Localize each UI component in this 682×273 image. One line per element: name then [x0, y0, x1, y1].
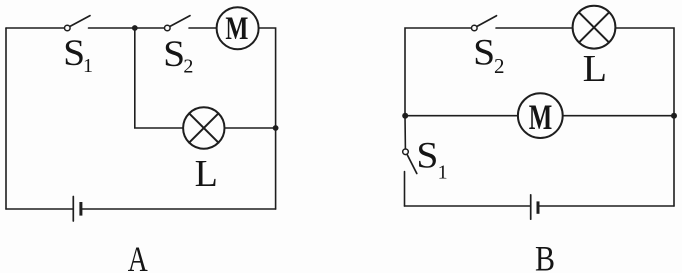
switch S1: [65, 16, 91, 31]
wire lamp to right corner: [616, 28, 674, 206]
battery (circuit B): [531, 195, 538, 219]
svg-text:1: 1: [438, 161, 448, 183]
wire A left vertical: [5, 28, 7, 209]
wire lamp to right wire: [226, 127, 273, 129]
wire S1 fixed contact down: [404, 172, 406, 207]
svg-text:S: S: [416, 135, 438, 176]
wire motor to right corner: [259, 28, 275, 209]
svg-text:B: B: [535, 239, 555, 273]
svg-text:S: S: [63, 33, 85, 74]
svg-text:S: S: [473, 32, 495, 73]
node junction B-right: [671, 113, 677, 119]
svg-text:M: M: [529, 97, 553, 137]
lamp L (circuit B): [573, 6, 616, 49]
label S2 (circuit A): [163, 34, 193, 78]
wire A bottom-left segment: [6, 208, 72, 210]
label S2 (circuit B): [473, 32, 504, 78]
wire B top-left segment: [405, 28, 471, 116]
svg-text:S: S: [163, 34, 185, 75]
motor M (circuit A): [217, 7, 259, 49]
node junction A-top: [132, 25, 138, 31]
wire B bottom-right segment: [539, 205, 674, 207]
wire node to motor: [405, 115, 517, 117]
svg-text:2: 2: [494, 54, 505, 78]
switch S2: [165, 16, 191, 31]
switch S2 (circuit B): [472, 16, 497, 31]
wire S1 to node: [89, 27, 133, 29]
label S1 (circuit A): [63, 33, 93, 77]
wire S2 to lamp: [496, 27, 572, 29]
svg-text:L: L: [195, 153, 218, 195]
wire node to S2: [138, 27, 165, 29]
battery (circuit A): [73, 197, 81, 222]
svg-text:A: A: [128, 239, 148, 273]
motor M (circuit B): [518, 93, 563, 138]
wire branch from node down: [135, 28, 182, 128]
svg-text:M: M: [225, 11, 248, 47]
wire node down to S1: [404, 116, 406, 149]
wire A top-left segment: [6, 27, 65, 29]
wire A bottom-right segment: [82, 208, 275, 210]
node junction B-left: [402, 113, 408, 119]
lamp L (circuit A): [183, 107, 224, 148]
label S1 (circuit B): [416, 135, 447, 183]
svg-text:1: 1: [83, 55, 93, 77]
node junction A-right: [273, 125, 279, 131]
switch S1 (circuit B): [403, 149, 417, 174]
svg-text:L: L: [583, 48, 607, 90]
wire motor to right node: [563, 115, 674, 117]
svg-text:2: 2: [183, 56, 193, 78]
wire B bottom-left segment: [405, 205, 530, 207]
wire S2 to motor: [189, 27, 216, 29]
